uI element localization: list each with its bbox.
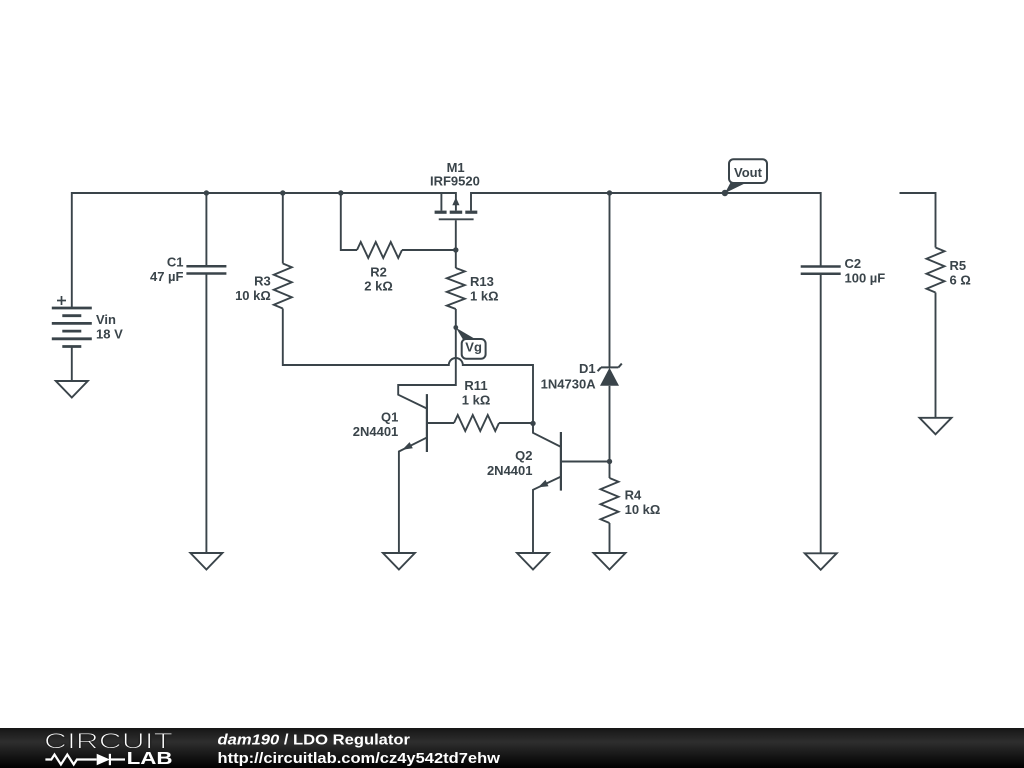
svg-text:2 kΩ: 2 kΩ	[364, 279, 393, 294]
svg-text:R13: R13	[470, 274, 494, 289]
svg-text:R4: R4	[625, 487, 642, 502]
svg-text:R5: R5	[950, 258, 967, 273]
svg-text:http://circuitlab.com/cz4y542t: http://circuitlab.com/cz4y542td7ehw	[218, 750, 501, 767]
svg-text:C1: C1	[167, 255, 184, 270]
svg-text:6 Ω: 6 Ω	[950, 273, 971, 288]
svg-text:Q2: Q2	[515, 448, 532, 463]
svg-text:1 kΩ: 1 kΩ	[462, 393, 491, 408]
svg-text:2N4401: 2N4401	[487, 463, 533, 478]
svg-text:R11: R11	[464, 378, 487, 393]
svg-text:47 µF: 47 µF	[150, 269, 184, 284]
svg-text:Vg: Vg	[465, 340, 482, 355]
svg-text:10 kΩ: 10 kΩ	[235, 288, 271, 303]
svg-text:D1: D1	[579, 361, 596, 376]
svg-text:1 kΩ: 1 kΩ	[470, 288, 499, 303]
svg-text:Vin: Vin	[96, 312, 116, 327]
svg-text:R3: R3	[254, 274, 271, 289]
svg-text:10 kΩ: 10 kΩ	[625, 502, 661, 517]
svg-text:Q1: Q1	[381, 410, 398, 425]
svg-text:C2: C2	[845, 256, 862, 271]
svg-text:R2: R2	[370, 265, 387, 280]
svg-text:2N4401: 2N4401	[353, 424, 399, 439]
svg-text:100 µF: 100 µF	[845, 271, 886, 286]
svg-text:dam190 / LDO Regulator: dam190 / LDO Regulator	[218, 731, 411, 748]
svg-text:Vout: Vout	[734, 165, 763, 180]
svg-text:1N4730A: 1N4730A	[541, 376, 597, 391]
svg-text:LAB: LAB	[127, 748, 173, 768]
svg-text:IRF9520: IRF9520	[430, 173, 480, 188]
svg-text:18 V: 18 V	[96, 327, 123, 342]
